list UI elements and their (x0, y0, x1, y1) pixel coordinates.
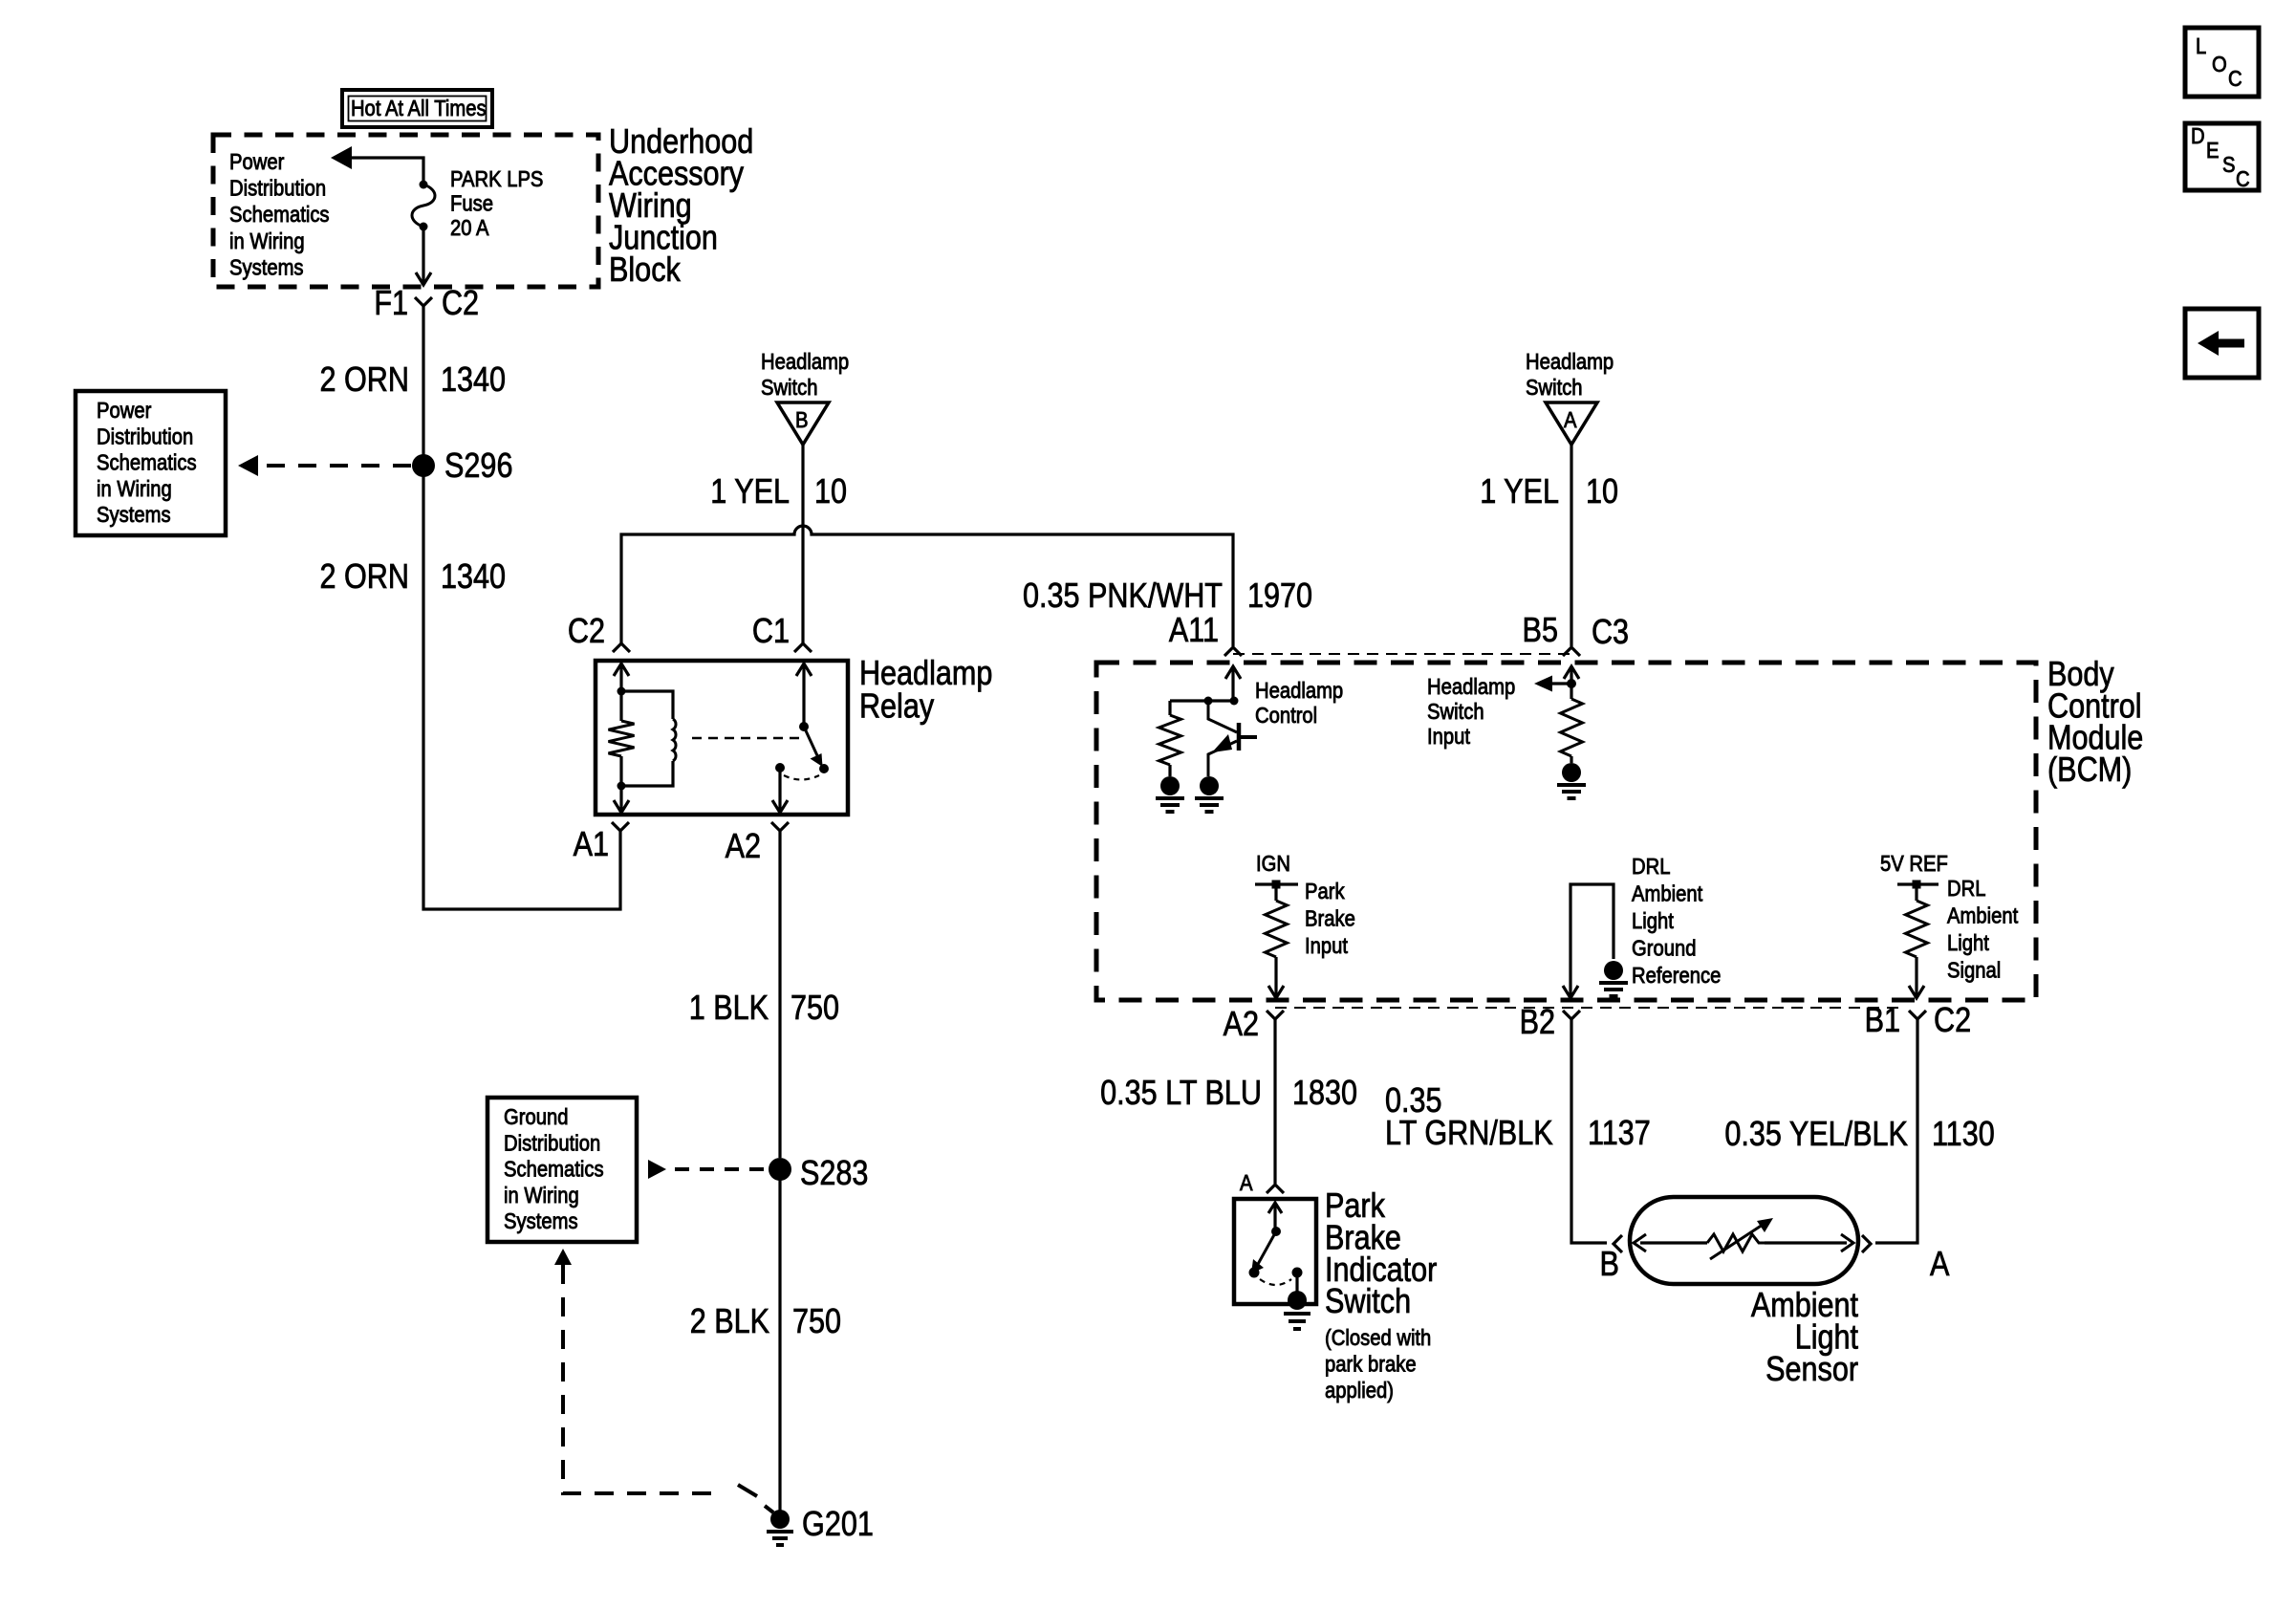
svg-text:in Wiring: in Wiring (97, 476, 172, 502)
svg-text:Headlamp: Headlamp (1427, 674, 1515, 700)
svg-text:A1: A1 (574, 826, 609, 864)
label: DRL Ambient Light Ground Reference (1632, 854, 1721, 989)
svg-text:F1: F1 (374, 285, 408, 323)
label: Headlamp Control (1255, 678, 1343, 729)
svg-text:Distribution: Distribution (504, 1130, 600, 1156)
wire: 1 YEL 10 (from headlamp switch A to BCM B5/C3) (1480, 445, 1618, 646)
svg-text:750: 750 (791, 990, 839, 1028)
svg-text:O: O (2212, 52, 2227, 77)
svg-text:S296: S296 (444, 447, 512, 486)
svg-text:Hot At All Times: Hot At All Times (351, 96, 487, 121)
ground G201 (767, 1506, 874, 1545)
BCM park brake input: IGN rail, resistor, arrow to pin A2 (1255, 851, 1298, 998)
svg-text:0.35 YEL/BLK: 0.35 YEL/BLK (1724, 1116, 1908, 1154)
svg-text:Headlamp: Headlamp (1526, 349, 1614, 375)
svg-text:Ground: Ground (1632, 935, 1696, 961)
svg-text:(Closed with: (Closed with (1325, 1325, 1431, 1351)
icon box: DESC (2185, 123, 2259, 192)
svg-text:1 YEL: 1 YEL (1480, 473, 1559, 511)
off-page connector: Headlamp Switch B (761, 349, 849, 445)
svg-text:Systems: Systems (504, 1208, 578, 1234)
wire: bus from relay C2 to BCM A11 with hop over B wire (621, 526, 1233, 646)
svg-text:5V REF: 5V REF (1880, 851, 1948, 877)
svg-text:Reference: Reference (1632, 963, 1721, 989)
svg-text:Switch: Switch (1325, 1283, 1411, 1321)
connector pin A (park brake switch) (1240, 1170, 1284, 1196)
svg-text:in Wiring: in Wiring (229, 228, 305, 254)
svg-text:Ambient: Ambient (1947, 903, 2018, 928)
svg-text:Switch: Switch (1526, 375, 1583, 401)
svg-text:Signal: Signal (1947, 957, 2001, 983)
svg-text:A11: A11 (1169, 612, 1219, 650)
dashed reference arrow from Ground Distribution box to S283 (648, 1160, 769, 1179)
svg-text:C2: C2 (442, 285, 479, 323)
note: Power Distribution Schematics in Wiring Systems (junction block) (229, 149, 330, 280)
svg-text:A: A (1240, 1170, 1253, 1196)
relay pin A1 (574, 822, 629, 864)
svg-text:DRL: DRL (1947, 876, 1985, 902)
svg-text:10: 10 (1586, 473, 1618, 511)
svg-text:C2: C2 (1934, 1002, 1971, 1040)
svg-text:Brake: Brake (1305, 905, 1355, 931)
wire: 1 YEL 10 (from headlamp switch B to relay C1) (710, 445, 847, 643)
svg-text:Switch: Switch (1427, 699, 1484, 725)
svg-text:C: C (2236, 166, 2250, 192)
svg-text:1340: 1340 (441, 361, 506, 400)
svg-text:C2: C2 (568, 613, 605, 651)
wire: battery feed into fuse (331, 146, 423, 182)
svg-text:(BCM): (BCM) (2047, 751, 2132, 790)
svg-text:750: 750 (792, 1303, 841, 1341)
label: Park Brake Input (1305, 879, 1355, 959)
relay coil branch (C2-A1): arrows, junction dots, resistor, coil (609, 664, 677, 813)
svg-text:0.35 LT BLU: 0.35 LT BLU (1100, 1075, 1262, 1113)
svg-text:1830: 1830 (1292, 1075, 1357, 1113)
svg-text:Switch: Switch (761, 375, 818, 401)
svg-text:A: A (1564, 407, 1577, 433)
box: Ground Distribution Schematics in Wiring Systems (487, 1098, 637, 1242)
svg-text:Light: Light (1632, 908, 1674, 934)
svg-text:Relay: Relay (859, 687, 934, 726)
wire: 0.35 LT BLU 1830 from BCM A2 to park brake switch (1100, 1019, 1357, 1184)
svg-text:1970: 1970 (1247, 577, 1312, 616)
label: PARK LPS Fuse 20 A (450, 166, 543, 241)
svg-text:Distribution: Distribution (97, 424, 193, 449)
BCM pin A2 (1224, 1006, 1284, 1044)
svg-text:Control: Control (1255, 703, 1317, 729)
svg-text:C3: C3 (1592, 614, 1629, 652)
svg-text:C1: C1 (752, 613, 790, 651)
label: Ambient Light Sensor (1751, 1287, 1859, 1389)
ambient light sensor internals: photo-resistor with arrows (1634, 1218, 1853, 1259)
wire: 1 BLK 750 from relay A2 to S283 (689, 831, 839, 1158)
connector pin B (ambient light sensor) (1600, 1235, 1622, 1284)
svg-text:C: C (2228, 66, 2242, 92)
svg-text:A2: A2 (1224, 1006, 1259, 1044)
BCM headlamp switch input: arrow up, left arrow, resistor, ground (1534, 666, 1586, 798)
svg-text:Light: Light (1947, 930, 1989, 956)
svg-text:Power: Power (97, 398, 151, 424)
label: Underhood Accessory Wiring Junction Block (609, 123, 753, 290)
svg-text:A2: A2 (726, 828, 761, 866)
svg-text:Fuse: Fuse (450, 190, 493, 216)
svg-text:1137: 1137 (1588, 1115, 1651, 1153)
component box: Park Brake Indicator Switch (1234, 1199, 1316, 1304)
svg-text:Park: Park (1305, 879, 1345, 904)
svg-text:2 ORN: 2 ORN (320, 361, 409, 400)
svg-text:S: S (2222, 152, 2236, 178)
wire: 2 ORN 1340 (lower segment) from S296 to relay pin A1 (320, 466, 620, 909)
svg-text:Block: Block (609, 251, 681, 290)
svg-text:Sensor: Sensor (1765, 1351, 1858, 1389)
svg-text:E: E (2206, 138, 2220, 163)
svg-text:Ground: Ground (504, 1104, 568, 1130)
wire: 2 ORN 1340 (upper segment) (320, 306, 507, 455)
svg-text:B: B (1600, 1246, 1619, 1284)
svg-text:1340: 1340 (441, 558, 506, 597)
wire: 0.35 LT GRN/BLK 1137 from BCM B2 to sensor B (1385, 1019, 1651, 1243)
label: 0.35 PNK/WHT 1970 (1023, 577, 1312, 616)
label box: Hot At All Times (342, 90, 492, 127)
svg-text:Input: Input (1427, 724, 1470, 750)
component box: Headlamp Relay (596, 655, 992, 815)
component: Ambient Light Sensor (stadium outline) (1630, 1197, 1858, 1284)
svg-text:G201: G201 (802, 1506, 874, 1544)
BCM bottom connector rail (thin dashed) (1275, 1007, 1902, 1009)
fuse: PARK LPS Fuse 20 A (412, 181, 435, 231)
connector pin F1 / C2 (374, 285, 479, 323)
relay switch (C1-A2): pivot, armature arrow, contacts (772, 664, 829, 813)
relay armature dashed link (692, 737, 799, 740)
BCM pin B1 / C2 (1865, 1002, 1972, 1040)
wire: fuse output with arrow to junction block edge (416, 228, 431, 285)
svg-text:Distribution: Distribution (229, 175, 326, 201)
svg-text:B5: B5 (1523, 612, 1558, 650)
BCM headlamp control driver: arrow, node, transistor Q, resistor, grounds (1156, 666, 1257, 812)
label: DRL Ambient Light Signal (1947, 876, 2018, 983)
svg-text:2 BLK: 2 BLK (690, 1303, 769, 1341)
svg-text:Systems: Systems (229, 254, 304, 280)
svg-text:S283: S283 (800, 1155, 868, 1193)
svg-text:Schematics: Schematics (504, 1156, 604, 1182)
dashed box: Body Control Module (BCM) (1096, 656, 2143, 1000)
svg-text:1 BLK: 1 BLK (689, 990, 769, 1028)
BCM pin B5 / C3 (1523, 612, 1630, 656)
svg-text:in Wiring: in Wiring (504, 1183, 579, 1208)
wire: 0.35 YEL/BLK 1130 from sensor A to BCM C2 (1724, 1019, 1994, 1243)
label: Park Brake Indicator Switch (1325, 1187, 1437, 1321)
svg-text:2 ORN: 2 ORN (320, 558, 409, 597)
svg-text:DRL: DRL (1632, 854, 1670, 880)
svg-text:Ambient: Ambient (1632, 881, 1702, 906)
svg-text:park brake: park brake (1325, 1351, 1417, 1377)
BCM pin B2 (1520, 1004, 1580, 1042)
svg-text:1 YEL: 1 YEL (710, 473, 790, 511)
relay pin C1 (752, 613, 812, 652)
svg-text:Input: Input (1305, 933, 1348, 959)
dashed box: Underhood Accessory Wiring Junction Block (213, 135, 598, 287)
svg-text:B2: B2 (1520, 1004, 1555, 1042)
svg-text:applied): applied) (1325, 1378, 1394, 1403)
BCM DRL ambient light signal: 5V REF rail, resistor, arrow to pin B1 (1880, 851, 1948, 998)
wire: 2 BLK 750 from S283 to G201 (690, 1169, 841, 1511)
off-page connector: Headlamp Switch A (1526, 349, 1614, 445)
splice S296 (412, 447, 512, 486)
park brake switch internals: arrow, pivot, armature, contacts, ground (1249, 1203, 1311, 1329)
svg-text:0.35 PNK/WHT: 0.35 PNK/WHT (1023, 577, 1223, 616)
BCM DRL ambient light ground reference bracket with ground (1563, 884, 1628, 998)
svg-text:Headlamp: Headlamp (761, 349, 849, 375)
svg-text:PARK LPS: PARK LPS (450, 166, 543, 192)
svg-text:10: 10 (814, 473, 847, 511)
relay pin C2 (568, 613, 630, 652)
dashed reference arrow from S296 to Power Distribution box (238, 455, 411, 476)
svg-text:20 A: 20 A (450, 215, 489, 241)
label: Headlamp Switch Input (1427, 674, 1515, 750)
svg-text:Schematics: Schematics (229, 202, 330, 228)
svg-text:B1: B1 (1865, 1002, 1900, 1040)
svg-text:L: L (2196, 33, 2206, 59)
svg-text:B: B (795, 407, 809, 433)
icon box: LOC (2185, 28, 2259, 97)
svg-text:LT GRN/BLK: LT GRN/BLK (1385, 1115, 1553, 1153)
relay pin A2 (726, 822, 789, 866)
svg-text:IGN: IGN (1256, 851, 1290, 877)
svg-text:Systems: Systems (97, 502, 171, 528)
svg-text:Headlamp: Headlamp (1255, 678, 1343, 704)
box: Power Distribution Schematics in Wiring Systems (76, 391, 226, 535)
svg-text:A: A (1930, 1246, 1950, 1284)
BCM top connector rail (thin dashed) (1233, 653, 1571, 655)
BCM pin A11 (1169, 612, 1242, 656)
svg-text:Schematics: Schematics (97, 449, 197, 475)
svg-text:Power: Power (229, 149, 284, 175)
connector pin A (ambient light sensor) (1862, 1235, 1950, 1284)
note: (Closed with park brake applied) (1325, 1325, 1431, 1403)
icon box: back arrow (2185, 309, 2259, 378)
svg-text:1130: 1130 (1932, 1116, 1995, 1154)
splice S283 (769, 1155, 868, 1193)
dashed reference path from Ground Distribution box to G201 (554, 1249, 773, 1512)
svg-text:D: D (2191, 123, 2205, 149)
